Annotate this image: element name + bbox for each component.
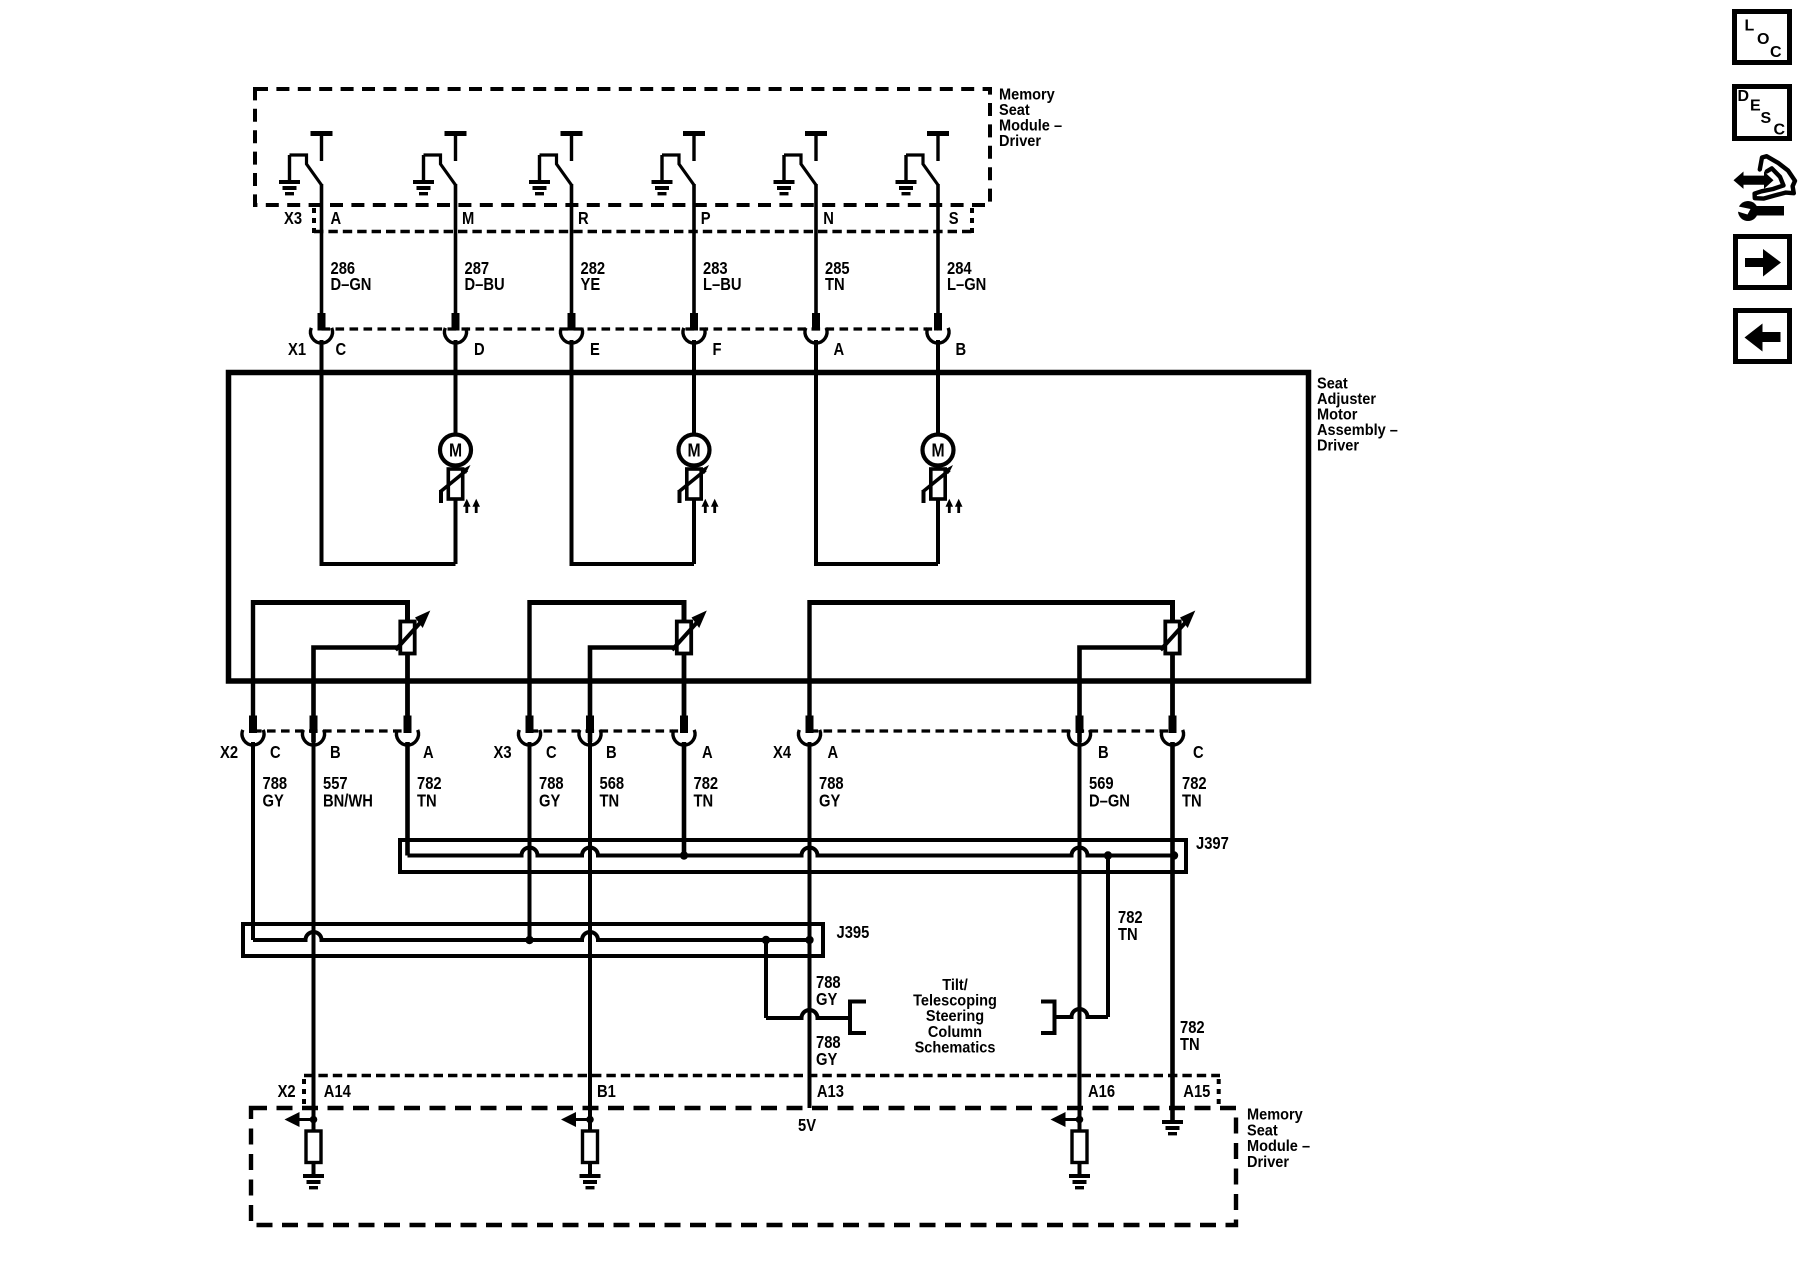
svg-text:X2: X2 (220, 743, 238, 763)
pin terminal E (connector X1) (568, 313, 576, 331)
svg-text:Driver: Driver (999, 132, 1041, 150)
junction dot (pin A16) (1076, 1116, 1084, 1124)
svg-text:5V: 5V (798, 1116, 816, 1136)
svg-text:B1: B1 (597, 1082, 616, 1102)
svg-text:C: C (546, 743, 557, 763)
svg-text:A13: A13 (817, 1082, 844, 1102)
wire (X1 pin B to motor M3) (936, 340, 940, 436)
wire 287 D–BU (pin M to X1) (454, 184, 458, 314)
wire (X1 pin F to motor M2) (692, 340, 696, 436)
svg-text:A: A (828, 743, 839, 763)
resistor (pin A16) (1078, 1120, 1082, 1132)
svg-text:GY: GY (539, 791, 560, 811)
memory seat module driver (top) dashed box (255, 89, 990, 205)
switch S1 blade (290, 155, 322, 185)
wire 782 TN (X2-A to J397) (405, 742, 410, 856)
svg-text:D–GN: D–GN (331, 275, 372, 295)
connector X3 dashed line (530, 729, 685, 732)
svg-text:J395: J395 (837, 923, 870, 943)
signal arrow (pin B1) (576, 1118, 591, 1121)
svg-text:C: C (1774, 122, 1786, 139)
switch S2 fixed contact (445, 131, 467, 136)
icon: jump arrows with wrench (1755, 156, 1795, 198)
wire 788 GY (J395 to steering column) (764, 940, 768, 1018)
svg-text:GY: GY (816, 990, 837, 1010)
wire to ground (pin A14) (312, 1163, 316, 1175)
svg-text:C: C (1770, 44, 1782, 61)
direction arrows (motor M3) (948, 504, 951, 513)
ground (switch S1) (288, 155, 291, 180)
svg-text:M: M (449, 439, 462, 461)
wire 285 TN (pin N to X1) (814, 184, 818, 314)
svg-text:A: A (423, 743, 434, 763)
potentiometer R2 wiper arrow (672, 623, 697, 650)
off-page connector bracket (left) (850, 1002, 866, 1034)
svg-text:TN: TN (1118, 925, 1138, 945)
svg-text:M: M (931, 439, 944, 461)
svg-text:A: A (702, 743, 713, 763)
splice pack J397 box (400, 840, 1186, 872)
svg-text:S: S (1761, 110, 1772, 127)
svg-text:C: C (336, 340, 347, 360)
pin terminal A (connector X4) (806, 716, 814, 734)
pin terminal B (connector X1) (934, 313, 942, 331)
wire 788 GY (X3-C to J395) (528, 742, 532, 940)
svg-text:B: B (1098, 743, 1109, 763)
potentiometer R1 left wire (251, 600, 255, 716)
svg-text:D–BU: D–BU (465, 275, 505, 295)
svg-text:X1: X1 (288, 340, 306, 360)
wire 788 GY (X4-A to A13) (808, 742, 812, 1108)
svg-text:A: A (834, 340, 845, 360)
svg-text:B: B (330, 743, 341, 763)
svg-text:TN: TN (1182, 791, 1202, 811)
thermal protector (motor M2) (692, 466, 696, 470)
svg-text:S: S (949, 209, 959, 229)
position sensor potentiometer R3 top wire (810, 603, 1173, 623)
potentiometer R2 wiper wire (590, 648, 675, 743)
svg-text:B: B (956, 340, 967, 360)
connector X2 (module) dotted line (304, 1074, 1220, 1078)
wire (motor M3 bottom) (936, 501, 940, 565)
resistor (pin A14) (312, 1120, 316, 1132)
connector X2 dashed line (253, 729, 408, 732)
motor M2 (679, 435, 710, 466)
svg-text:J397: J397 (1196, 834, 1229, 854)
svg-text:N: N (823, 209, 834, 229)
svg-text:TN: TN (417, 791, 437, 811)
svg-text:BN/WH: BN/WH (323, 791, 373, 811)
ground (pin A14) (303, 1174, 324, 1178)
svg-text:GY: GY (263, 791, 284, 811)
wire to ground (pin B1) (588, 1163, 592, 1175)
motor M1 (440, 435, 471, 466)
potentiometer R3 wiper arrow (1161, 623, 1186, 650)
pin terminal C (connector X1) (318, 313, 326, 331)
wire (loop to X1 pin C) (322, 562, 456, 566)
seat adjuster motor assembly driver box (229, 373, 1309, 682)
icon box DESC (1735, 87, 1790, 139)
svg-text:E: E (1750, 98, 1761, 115)
svg-text:X4: X4 (773, 743, 792, 763)
junction dot (J397 / X3-A) (680, 851, 688, 859)
svg-text:GY: GY (816, 1050, 837, 1070)
svg-text:C: C (270, 743, 281, 763)
pin terminal A (connector X1) (812, 313, 820, 331)
wire 282 YE (pin R to X1) (570, 184, 574, 314)
wire 569 D-GN (X4-B to A16) (1078, 742, 1082, 1120)
svg-text:M: M (687, 439, 700, 461)
ground (switch S3) (538, 155, 541, 180)
wire 286 D–GN (pin A to X1) (320, 184, 324, 314)
switch S4 fixed contact (683, 131, 705, 136)
svg-text:L–GN: L–GN (947, 275, 986, 295)
potentiometer R2 body (677, 622, 691, 654)
signal arrow (pin A14) (299, 1118, 314, 1121)
pin terminal A (connector X3) (680, 716, 688, 734)
pin terminal B (connector X3) (586, 716, 594, 734)
potentiometer R1 wiper arrow (396, 623, 421, 650)
switch S2 blade (424, 155, 456, 185)
pin terminal C (connector X3) (526, 716, 534, 734)
icon box forward arrow (1736, 237, 1790, 288)
junction dot (J397 / 782 TN drop) (1104, 851, 1112, 859)
pin terminal A (connector X2) (404, 716, 412, 734)
svg-text:A14: A14 (324, 1082, 352, 1102)
switch S3 blade (540, 155, 572, 185)
svg-text:D: D (1738, 88, 1750, 105)
pin terminal B (connector X4) (1076, 716, 1084, 734)
switch S5 blade (784, 155, 816, 185)
junction dot (pin A14) (310, 1116, 318, 1124)
svg-text:O: O (1757, 31, 1769, 48)
ground (switch S2) (422, 155, 425, 180)
ground (switch S6) (904, 155, 907, 180)
svg-text:Driver: Driver (1247, 1153, 1289, 1171)
connector X3 bottom dotted line (314, 230, 972, 234)
svg-text:A16: A16 (1088, 1082, 1115, 1102)
svg-text:X2: X2 (278, 1082, 296, 1102)
svg-text:TN: TN (1180, 1035, 1200, 1055)
icon box back arrow (1736, 311, 1790, 362)
motor M3 (923, 435, 954, 466)
svg-text:Driver: Driver (1317, 437, 1359, 455)
pin terminal B (connector X2) (310, 716, 318, 734)
svg-text:X3: X3 (494, 743, 512, 763)
svg-text:E: E (590, 340, 600, 360)
signal arrow (pin A16) (1065, 1118, 1080, 1121)
wire 782 TN (J397 to steering column) (1106, 856, 1110, 1018)
ground (pin B1) (580, 1174, 601, 1178)
wire (loop to X1 pin A) (816, 562, 938, 566)
junction dot (J395 / X4-A) (805, 936, 813, 944)
position sensor potentiometer R1 top wire (253, 603, 408, 623)
splice pack J395 bus (253, 932, 810, 940)
switch S4 blade (662, 155, 694, 185)
potentiometer R3 wiper wire (1080, 648, 1164, 743)
ground (pin A16) (1069, 1174, 1090, 1178)
pin terminal F (connector X1) (690, 313, 698, 331)
switch S5 fixed contact (805, 131, 827, 136)
potentiometer R1 bottom wire (405, 654, 410, 717)
svg-text:TN: TN (600, 791, 620, 811)
svg-text:D–GN: D–GN (1089, 791, 1130, 811)
potentiometer R1 body (400, 622, 414, 654)
wire (loop to X1 pin E) (572, 562, 695, 566)
svg-text:L: L (1745, 18, 1755, 35)
off-page connector bracket (right) (1041, 1002, 1055, 1034)
svg-text:P: P (701, 209, 711, 229)
switch S3 fixed contact (561, 131, 583, 136)
svg-text:A: A (331, 209, 342, 229)
icon box LOC (1735, 12, 1790, 63)
svg-text:TN: TN (694, 791, 714, 811)
direction arrows (motor M1) (465, 504, 468, 513)
resistor (pin B1) (588, 1120, 592, 1132)
connector X3 divider (312, 208, 316, 233)
svg-text:Schematics: Schematics (915, 1039, 996, 1057)
wire (motor M2 bottom) (692, 501, 696, 565)
svg-text:L–BU: L–BU (703, 275, 742, 295)
connector X2 (module) dividers (302, 1079, 306, 1104)
switch S6 blade (906, 155, 938, 185)
potentiometer R3 left wire (807, 600, 811, 716)
position sensor potentiometer R2 top wire (530, 603, 685, 623)
wire 782 TN (X4-C to A15) (1170, 742, 1175, 1120)
svg-text:YE: YE (581, 275, 601, 295)
potentiometer R3 body (1165, 622, 1179, 654)
wire to ground (pin A16) (1078, 1163, 1082, 1175)
wire 557 BN/WH (X2-B to A14) (312, 742, 316, 1120)
pin terminal D (connector X1) (452, 313, 460, 331)
svg-text:A15: A15 (1183, 1082, 1210, 1102)
wire 568 TN (X3-B to B1) (588, 742, 592, 1120)
splice pack J397 bus (408, 848, 1175, 856)
svg-text:C: C (1193, 743, 1204, 763)
memory seat module driver (bottom) dashed box (251, 1108, 1236, 1225)
svg-text:X3: X3 (284, 209, 302, 229)
splice pack J395 box (243, 924, 823, 956)
thermal protector (motor M1) (454, 466, 458, 470)
svg-text:D: D (474, 340, 485, 360)
direction arrows (motor M2) (704, 504, 707, 513)
wire 788 GY (X2-C to J395) (251, 742, 255, 940)
junction dot (J397 / X4-C) (1170, 851, 1178, 859)
wire (X1 pin D to motor M1) (454, 340, 458, 436)
potentiometer R1 wiper wire (314, 648, 399, 743)
pin terminal C (connector X4) (1169, 716, 1177, 734)
junction dot (J395 / X3-C) (525, 936, 533, 944)
switch S6 fixed contact (927, 131, 949, 136)
wire 284 L–GN (pin S to X1) (936, 184, 940, 314)
potentiometer R2 bottom wire (682, 654, 687, 717)
ground (switch S5) (782, 155, 785, 180)
svg-text:R: R (578, 209, 589, 229)
thermal protector (motor M3) (936, 466, 940, 470)
wire 283 L–BU (pin P to X1) (692, 184, 696, 314)
ground (switch S4) (660, 155, 663, 180)
svg-text:TN: TN (825, 275, 845, 295)
wire 782 TN (X3-A to J397) (682, 742, 687, 856)
pin terminal C (connector X2) (249, 716, 257, 734)
connector X4 dashed line (810, 729, 1173, 732)
svg-text:M: M (462, 209, 474, 229)
potentiometer R2 left wire (527, 600, 531, 716)
ground (pin A15) (1162, 1120, 1183, 1124)
svg-text:F: F (713, 340, 722, 360)
svg-text:GY: GY (819, 791, 840, 811)
junction dot (pin B1) (586, 1116, 594, 1124)
potentiometer R3 bottom wire (1170, 654, 1175, 717)
wire (motor M1 bottom) (454, 501, 458, 565)
junction dot (J395 / 788 GY drop) (762, 936, 770, 944)
connector X1 dashed line (322, 327, 939, 330)
svg-text:B: B (606, 743, 617, 763)
switch S1 fixed contact (311, 131, 333, 136)
